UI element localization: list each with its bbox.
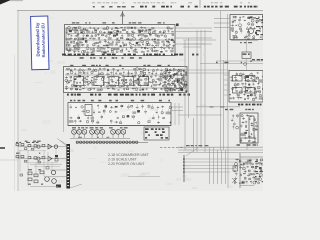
- driver transistor groups: [72, 129, 126, 138]
- control row2 wire: [18, 158, 66, 160]
- terminal diagonal wire: [186, 148, 198, 156]
- paper background: [0, 0, 263, 191]
- scale unit IC strip: [249, 116, 254, 138]
- edge connector tab: [0, 147, 5, 149]
- connector J1 stub diagonal: [70, 184, 82, 188]
- power unit rail horizontal: [240, 156, 263, 158]
- RF unit block A sub label row: [80, 57, 142, 59]
- control vertical feeds: [20, 150, 44, 186]
- page border left line: [17, 11, 19, 192]
- VCO tail labels: [240, 42, 252, 43]
- watermark box: [31, 16, 49, 70]
- scale unit block F circuitry: [240, 114, 258, 143]
- svg-text:RadioAmateur.EU: RadioAmateur.EU: [40, 23, 46, 58]
- counter unit block E border: [229, 71, 263, 103]
- VCO unit feed wires: [214, 19, 230, 28]
- schematic sheet area: [18, 10, 263, 191]
- AF unit block C border: [68, 103, 171, 126]
- counter unit IC rects: [233, 76, 256, 94]
- transistor group labels: [72, 127, 128, 128]
- scan corner artifact: [0, 0, 23, 5]
- scale unit bottom label row: [237, 144, 259, 145]
- control circuit row1 parts: [16, 142, 58, 149]
- RF unit block A border: [65, 25, 176, 56]
- scale unit left parts: [231, 114, 238, 130]
- counter unit left pin stubs: [224, 75, 230, 95]
- top margin faint title row: [92, 2, 250, 3]
- power unit right text col: [255, 161, 263, 182]
- power unit left part: [232, 166, 238, 183]
- IF unit block B bottom label row: [67, 94, 190, 96]
- left margin rule: [0, 159, 18, 161]
- IF unit block B circuitry: [65, 68, 188, 92]
- power unit label box: [241, 138, 255, 143]
- legend line 2-18: [108, 153, 150, 157]
- buffer parts: [244, 61, 252, 66]
- bus label dashes: [216, 62, 242, 63]
- control row1 labels: [25, 141, 41, 142]
- watermark text: [35, 22, 46, 58]
- interconnect bus vertical wires: [185, 11, 228, 188]
- RF unit block A text row: [76, 30, 151, 31]
- transistor row base line: [70, 138, 130, 140]
- power unit block G circuitry: [234, 158, 264, 184]
- VCO right text column: [256, 18, 263, 35]
- page border top line: [17, 10, 263, 12]
- scale unit block F border: [240, 113, 258, 143]
- AF unit left feed line: [63, 93, 65, 132]
- RF unit block A input stage box: [66, 30, 78, 50]
- AF unit block C circuitry: [69, 104, 172, 124]
- bottom supply rail dashed: [160, 147, 184, 149]
- power unit rail vertical: [239, 153, 241, 188]
- IF unit block B top labels: [70, 65, 170, 66]
- AF unit block C lower border: [68, 125, 171, 127]
- top margin title text row: [93, 6, 258, 8]
- bottom supply rail 2: [178, 149, 263, 151]
- AF unit extension wires: [171, 103, 183, 125]
- bottom supply rail 1: [178, 146, 263, 148]
- control circuit extra wiring: [18, 148, 58, 187]
- RF unit block A inner rails: [66, 28, 174, 48]
- RF unit block A bottom label row: [62, 54, 204, 56]
- IF unit output cluster: [162, 68, 187, 92]
- IF unit block B border: [64, 67, 188, 93]
- terminal strip fan-out wires: [184, 159, 258, 172]
- svg-text:2-19 SCALE UNIT: 2-19 SCALE UNIT: [108, 158, 137, 162]
- connector pin row labels: [78, 137, 109, 138]
- VCO unit block D border: [230, 15, 263, 40]
- right margin label: [252, 59, 263, 60]
- legend line 2-19: [108, 158, 137, 162]
- RF mixer cap mark: [176, 24, 179, 27]
- antenna feed line: [121, 11, 125, 24]
- scale unit top label row: [225, 109, 254, 110]
- main board edge connector J1: [66, 144, 70, 189]
- scale unit drop wire: [246, 143, 248, 150]
- page border left faint line: [14, 55, 16, 191]
- power unit bottom wire: [240, 185, 254, 187]
- bottom supply rail 3: [178, 152, 263, 154]
- interconnect bus horizontal wires: [178, 40, 263, 115]
- AF unit block C top label row: [70, 100, 170, 102]
- control row1 wire: [18, 146, 66, 148]
- counter unit label row2: [210, 106, 225, 107]
- inter-unit connector pin row: [76, 141, 148, 143]
- rail label dashes left: [186, 145, 208, 146]
- control circuit lower cluster: [28, 169, 66, 187]
- control row2 labels: [16, 153, 40, 154]
- faint bottom center dash: [128, 176, 160, 178]
- VCO coil L1: [248, 28, 253, 33]
- svg-text:2-20 POWER ON UNIT: 2-20 POWER ON UNIT: [108, 162, 145, 166]
- RF unit output wires: [175, 28, 212, 44]
- top margin tick: [199, 0, 201, 8]
- connector J1 top feeds: [57, 139, 66, 147]
- final unit label block: [144, 127, 169, 140]
- buffer box: [242, 52, 251, 59]
- scan mottle speckles: [21, 18, 264, 189]
- VCO unit block D circuitry: [231, 16, 266, 40]
- control circuit row2 parts: [16, 155, 58, 161]
- IF unit block B inner rails: [65, 70, 186, 88]
- IF unit IC row: [74, 70, 149, 86]
- VCO unit bottom tail wire: [231, 40, 258, 70]
- AF unit IC1 vertical: [85, 105, 92, 116]
- legend line 2-20: [108, 162, 145, 166]
- terminal strip TB1: [183, 155, 185, 182]
- svg-text:2-18 VCO/MARKER UNIT: 2-18 VCO/MARKER UNIT: [108, 153, 150, 157]
- counter unit block E circuitry: [229, 72, 264, 100]
- RF unit block A top labels: [72, 22, 165, 23]
- RF unit block A circuitry: [65, 26, 174, 53]
- control mid wires: [30, 164, 62, 166]
- counter unit label row: [238, 104, 262, 106]
